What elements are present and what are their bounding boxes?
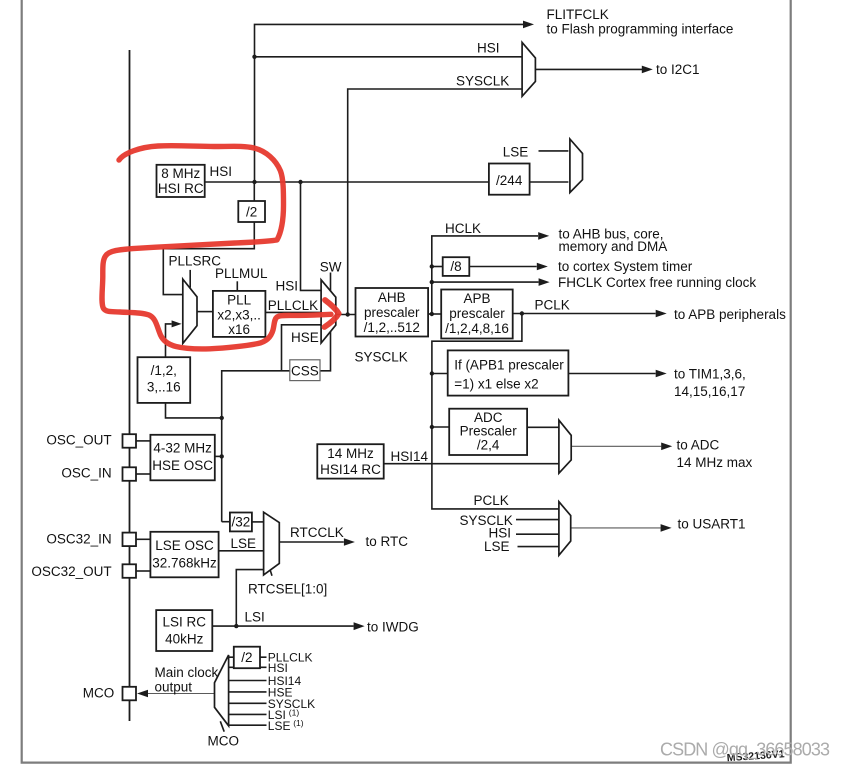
svg-text:SYSCLK: SYSCLK: [456, 74, 509, 89]
svg-text:8 MHz: 8 MHz: [161, 166, 200, 181]
svg-text:MCO: MCO: [83, 686, 115, 701]
svg-text:PCLK: PCLK: [535, 298, 570, 313]
svg-text:PLLCLK: PLLCLK: [268, 298, 318, 313]
svg-text:LSE: LSE: [484, 539, 510, 554]
svg-text:HSE OSC: HSE OSC: [152, 458, 213, 473]
svg-text:14 MHz: 14 MHz: [327, 446, 374, 461]
svg-text:14 MHz max: 14 MHz max: [677, 455, 753, 470]
svg-text:OSC32_IN: OSC32_IN: [46, 532, 111, 547]
svg-text:output: output: [155, 680, 193, 695]
svg-text:HSE: HSE: [291, 330, 319, 345]
svg-text:LSE: LSE: [231, 536, 257, 551]
svg-text:LSE: LSE: [268, 719, 291, 733]
svg-text:x16: x16: [228, 322, 250, 337]
svg-text:OSC_IN: OSC_IN: [61, 466, 111, 481]
svg-text:HSI: HSI: [477, 41, 500, 56]
svg-text:OSC_OUT: OSC_OUT: [46, 433, 111, 448]
svg-text:PLLMUL: PLLMUL: [215, 266, 268, 281]
svg-text:HSI RC: HSI RC: [158, 181, 204, 196]
svg-text:Main clock: Main clock: [155, 665, 219, 680]
svg-text:CSDN @qq_36658033: CSDN @qq_36658033: [660, 740, 830, 761]
svg-text:HSI: HSI: [276, 279, 299, 294]
svg-text:(1): (1): [293, 718, 304, 728]
svg-text:3,..16: 3,..16: [147, 379, 181, 394]
svg-text:SW: SW: [320, 260, 342, 275]
svg-text:to RTC: to RTC: [366, 534, 409, 549]
svg-text:RTCCLK: RTCCLK: [290, 525, 344, 540]
svg-text:/1,2,4,8,16: /1,2,4,8,16: [445, 321, 509, 336]
svg-text:If (APB1 prescaler: If (APB1 prescaler: [454, 358, 564, 373]
svg-text:to APB peripherals: to APB peripherals: [674, 307, 786, 322]
svg-text:HSI14: HSI14: [391, 449, 429, 464]
svg-text:LSI: LSI: [245, 610, 265, 625]
svg-text:prescaler: prescaler: [364, 305, 420, 320]
svg-text:to ADC: to ADC: [677, 438, 720, 453]
svg-text:/2: /2: [246, 204, 257, 219]
svg-text:CSS: CSS: [291, 363, 319, 378]
svg-text:/2: /2: [241, 650, 252, 665]
svg-text:32.768kHz: 32.768kHz: [152, 556, 217, 571]
svg-text:to USART1: to USART1: [678, 517, 746, 532]
svg-text:/1,2,: /1,2,: [151, 363, 177, 378]
svg-text:LSE: LSE: [503, 145, 529, 160]
svg-text:SYSCLK: SYSCLK: [355, 350, 408, 365]
svg-text:memory and DMA: memory and DMA: [559, 239, 668, 254]
svg-text:=1) x1 else x2: =1) x1 else x2: [454, 377, 538, 392]
svg-text:LSE OSC: LSE OSC: [155, 538, 214, 553]
svg-text:to TIM1,3,6,: to TIM1,3,6,: [674, 367, 746, 382]
svg-text:to Flash programming interface: to Flash programming interface: [547, 22, 734, 37]
svg-text:/32: /32: [232, 515, 251, 530]
svg-text:PCLK: PCLK: [474, 493, 509, 508]
svg-text:Prescaler: Prescaler: [460, 423, 518, 438]
svg-text:(1): (1): [289, 708, 300, 718]
svg-text:4-32 MHz: 4-32 MHz: [153, 441, 212, 456]
svg-text:LSI RC: LSI RC: [162, 615, 206, 630]
svg-text:prescaler: prescaler: [449, 306, 505, 321]
svg-text:14,15,16,17: 14,15,16,17: [674, 384, 745, 399]
svg-text:to IWDG: to IWDG: [367, 620, 419, 635]
svg-text:HSI: HSI: [268, 661, 288, 675]
svg-text:40kHz: 40kHz: [165, 632, 204, 647]
svg-text:APB: APB: [463, 291, 490, 306]
svg-text:HSI14 RC: HSI14 RC: [320, 462, 381, 477]
svg-text:MCO: MCO: [208, 734, 240, 749]
svg-text:/244: /244: [496, 173, 523, 188]
svg-text:FLITFCLK: FLITFCLK: [547, 7, 609, 22]
svg-text:x2,x3,..: x2,x3,..: [217, 307, 261, 322]
svg-text:/1,2,..512: /1,2,..512: [364, 320, 420, 335]
svg-text:/2,4: /2,4: [477, 437, 500, 452]
svg-text:/8: /8: [450, 259, 461, 274]
svg-text:to cortex System timer: to cortex System timer: [558, 259, 693, 274]
svg-text:to I2C1: to I2C1: [656, 62, 700, 77]
svg-text:FHCLK Cortex free running cloc: FHCLK Cortex free running clock: [558, 275, 756, 290]
svg-text:RTCSEL[1:0]: RTCSEL[1:0]: [248, 582, 327, 597]
svg-text:HSI: HSI: [210, 164, 233, 179]
svg-text:PLL: PLL: [227, 292, 252, 307]
svg-text:HCLK: HCLK: [445, 221, 481, 236]
svg-text:OSC32_OUT: OSC32_OUT: [31, 564, 111, 579]
svg-text:PLLSRC: PLLSRC: [169, 253, 222, 268]
svg-text:AHB: AHB: [378, 290, 406, 305]
